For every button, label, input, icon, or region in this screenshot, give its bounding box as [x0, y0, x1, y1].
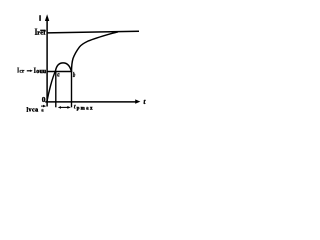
curve rising from origin to a — [47, 71, 56, 102]
svg-text:pmax: pmax — [77, 106, 94, 111]
svg-text:0: 0 — [42, 95, 46, 104]
chord line from axis to b — [47, 71, 72, 73]
svg-text:vca: vca — [29, 108, 39, 114]
curve steep rise after b to saturation — [72, 32, 119, 71]
double arrow between a and b below axis — [58, 106, 71, 109]
y-axis label i — [39, 15, 41, 21]
svg-text:a: a — [57, 69, 59, 78]
svg-text:a: a — [41, 109, 44, 114]
overbar on ref — [40, 29, 45, 31]
y-axis — [45, 14, 49, 106]
label Icr -> Iouu (mid left) — [17, 66, 47, 75]
svg-text:t: t — [143, 98, 146, 106]
arrow to origin (bottom left) — [41, 105, 46, 108]
svg-text:t: t — [74, 103, 76, 110]
x-axis — [45, 99, 140, 103]
vertical line at a — [55, 71, 57, 107]
arc bump between a and b — [55, 63, 71, 71]
vertical line at b — [71, 71, 73, 107]
svg-text:cr: cr — [20, 70, 26, 75]
svg-text:b: b — [73, 70, 76, 79]
svg-text:u: u — [43, 69, 47, 75]
asymptote line — [47, 31, 139, 33]
